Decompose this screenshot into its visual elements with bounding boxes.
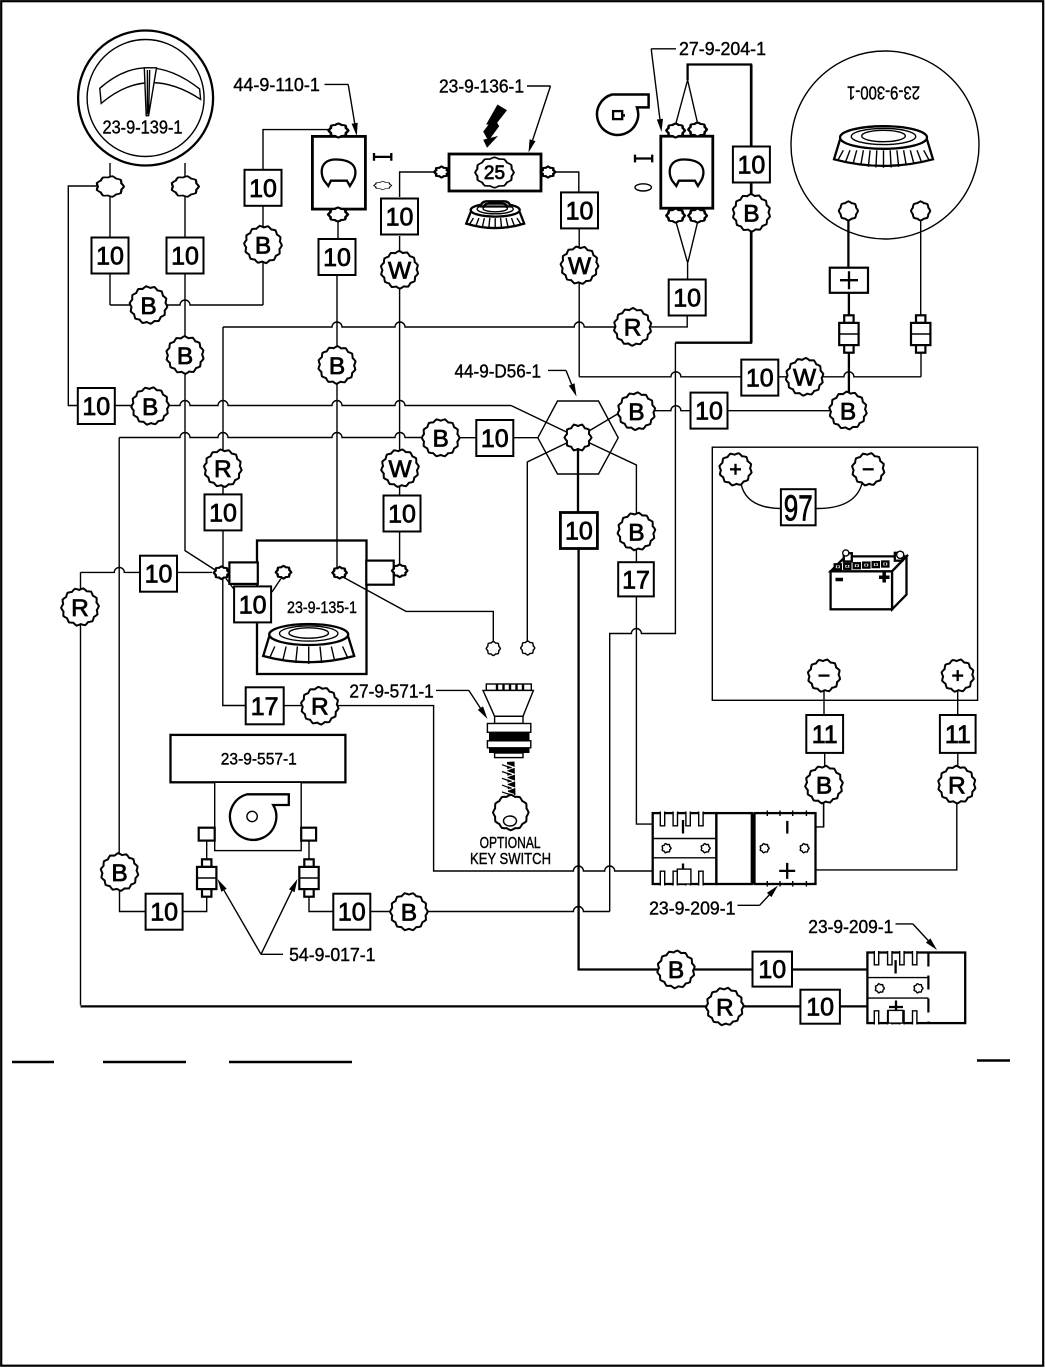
wire label 10 at 135 box: [234, 586, 271, 622]
splice R far left: [61, 588, 99, 625]
splice B bottom run: [657, 951, 694, 989]
wire y572.4 from R elbow to 10 box hop x119: [81, 567, 141, 572]
svg-text:W: W: [388, 258, 412, 285]
wire label 11 right: [940, 715, 976, 753]
wire left alternator lead heavy: [847, 219, 850, 393]
horn icon near relay 27-9-204-1: [597, 95, 649, 135]
component box 23-9-135-1: [257, 541, 367, 675]
svg-text:44-9-110-1: 44-9-110-1: [233, 74, 320, 95]
svg-text:23-9-135-1: 23-9-135-1: [287, 598, 357, 617]
right tab of 23-9-135-1: [366, 561, 393, 585]
svg-text:23-9-139-1: 23-9-139-1: [103, 117, 183, 138]
svg-text:W: W: [793, 365, 817, 392]
svg-text:10: 10: [746, 365, 774, 393]
svg-text:10: 10: [481, 425, 509, 453]
long bottom bus y1006.4 to R 10 connector: [81, 1005, 708, 1007]
wire gauge right terminal down: [184, 163, 186, 238]
svg-text:10: 10: [145, 561, 173, 589]
legend line segment 2: [103, 1061, 186, 1064]
blower housing box: [215, 782, 302, 850]
heavy wire x578 from 10 box down to B 10 connector block 2 run: [579, 548, 659, 970]
battery minus terminal circle top: [852, 453, 884, 485]
circuit 97 box: [781, 487, 816, 528]
wire right alternator lead down to bus: [920, 220, 922, 377]
wire right blower bullet to 10 to B: [309, 898, 392, 912]
splice R battery plus lead: [938, 766, 975, 804]
svg-text:97: 97: [784, 487, 813, 528]
relay 27-9-204-1 top left terminal: [666, 123, 684, 137]
alternator right terminal: [911, 201, 930, 220]
wire 10 box x158 to junction blob at 135 box left tab: [177, 571, 212, 573]
splice R at 17 box: [301, 687, 338, 725]
battery minus output circle: [808, 660, 840, 692]
junction block 44-9-D56-1 hexagon: [538, 401, 618, 474]
wire x400 from 10 box down to 23-9-135-1 right tab: [399, 236, 401, 565]
svg-text:17: 17: [622, 566, 650, 594]
splice W bus y377: [786, 358, 823, 396]
relay 44-9-110-1: [312, 136, 365, 209]
svg-text:11: 11: [945, 721, 971, 749]
gauge 23-9-139-1: [78, 31, 213, 166]
svg-text:W: W: [388, 456, 412, 483]
wire 17 box to R circle y705.5: [284, 705, 302, 707]
wire 10 box x687 down to R circle y327: [651, 316, 687, 327]
splice B x751: [733, 194, 770, 232]
svg-text:R: R: [71, 595, 89, 622]
svg-text:10: 10: [758, 956, 786, 984]
svg-text:10: 10: [338, 899, 366, 927]
bevel gear under fuse: [466, 203, 524, 228]
wire y410.7 from hexagon B to 10 box to B splice: [654, 406, 831, 411]
splice R x223: [204, 449, 242, 487]
optional key switch 27-9-571-1 lock cylinder: [483, 684, 533, 758]
svg-text:R: R: [948, 772, 966, 799]
wire label 10 under relay 27-9-204: [669, 280, 706, 316]
svg-text:B: B: [668, 957, 684, 984]
alternator pulley: [834, 126, 933, 168]
wire B blower splice right to key area elbow up long run: [427, 907, 610, 912]
wire x751 relay feed through 10 and B: [750, 65, 752, 343]
svg-text:B: B: [816, 772, 832, 799]
svg-text:23-9-300-1: 23-9-300-1: [847, 83, 920, 104]
wire relay 44-9-110 bottom to 10 box: [337, 221, 339, 239]
wire x223 from bus y327 down to R 10 17 chain: [223, 327, 246, 706]
wire label 10 left of hexagon: [476, 420, 513, 456]
alternator left terminal: [839, 201, 858, 220]
splice B y305: [130, 286, 168, 324]
relay 27-9-204-1 bottom right terminal: [688, 209, 706, 223]
svg-text:10: 10: [566, 197, 594, 225]
splice R bus y327: [614, 308, 651, 346]
svg-text:10: 10: [695, 398, 723, 426]
splice B x337: [318, 346, 355, 384]
svg-text:27-9-204-1: 27-9-204-1: [679, 38, 766, 59]
terminal blob on 23-9-135-1: [276, 566, 291, 579]
wire end blob left of relay 27-9-204-1: [635, 184, 651, 191]
bus y437.5 from x119 to B circle: [119, 433, 423, 438]
right tab terminal blob: [392, 564, 407, 577]
svg-text:B: B: [840, 398, 856, 425]
wire blower B splice to 10 to left bullet: [120, 890, 207, 912]
wire battery minus to 11 to B to connector block 1: [816, 692, 825, 827]
wire label 10 bottom R run: [800, 990, 840, 1024]
key switch left lead terminal: [486, 641, 500, 655]
svg-text:KEY SWITCH: KEY SWITCH: [470, 851, 551, 868]
svg-text:23-9-209-1: 23-9-209-1: [649, 898, 735, 919]
junction blob inside 23-9-135-1: [332, 567, 346, 579]
wire V legs from relay 27-9-204 bottom terminals to apex: [676, 222, 698, 262]
left tab of 23-9-135-1: [229, 562, 257, 584]
arc from plus circle to 97 box: [741, 484, 781, 509]
svg-text:44-9-D56-1: 44-9-D56-1: [455, 361, 542, 382]
connector block 23-9-209-1 lower: [867, 951, 965, 1025]
svg-text:23-9-209-1: 23-9-209-1: [808, 916, 893, 937]
svg-text:10: 10: [239, 591, 267, 619]
wire y969.5 B to 10 to connector block 2: [694, 968, 868, 970]
wire connector block 1 right to B above: [823, 803, 825, 827]
bullet connector 54-9-017-1 left: [197, 859, 216, 896]
hexagon spoke to right B circle: [578, 413, 620, 438]
label box 23-9-557-1: [171, 735, 346, 782]
svg-text:R: R: [624, 315, 642, 342]
wire bus y305 from x110 to x263 hop at 185: [110, 300, 263, 305]
svg-text:B: B: [329, 353, 345, 380]
svg-text:R: R: [311, 694, 329, 721]
splice B blower right: [390, 893, 428, 930]
connector block 23-9-209-1 upper: [653, 811, 816, 887]
svg-text:W: W: [568, 253, 592, 280]
wire label 10 under fuse left: [381, 199, 418, 235]
wire blower tabs to bullets: [207, 841, 309, 859]
blower fan icon: [230, 794, 289, 840]
splice W under fuse right: [561, 247, 599, 284]
bus y327 from x223 corner to R circle: [223, 322, 615, 327]
fuse 25A 23-9-136-1: [449, 154, 541, 191]
bullet connector left alternator lead: [839, 315, 858, 352]
wire junction blob diagonals into 10 box at 135 box: [226, 579, 281, 593]
wire x337 from 10 box down into 23-9-135-1 box: [336, 276, 338, 569]
relay 27-9-204-1: [661, 136, 713, 208]
leader arrows for 54-9-017-1: [261, 953, 283, 955]
blower left tab: [199, 828, 215, 841]
svg-text:25: 25: [484, 163, 505, 184]
battery plus output circle: [942, 660, 974, 692]
arc from minus circle to 97 box: [816, 484, 863, 509]
wire 10 box down to B splice bus y305: [109, 273, 111, 305]
wire x579 from 10 box down to bus y376.8: [578, 229, 580, 377]
bottom bus segments between R 10 and connector block 2: [743, 1005, 869, 1007]
wire label 10 under gauge left: [92, 238, 129, 274]
svg-text:23-9-557-1: 23-9-557-1: [221, 750, 297, 769]
wire label 10 above B x263: [245, 170, 282, 206]
leader for 23-9-136-1: [527, 85, 551, 87]
wire battery plus to 11 to R to connector block 1: [816, 692, 958, 870]
wire label 10 left of 135 box: [140, 556, 177, 592]
wire label 11 left: [806, 715, 843, 753]
gauge right terminal: [172, 176, 199, 197]
wire label 10 x223 column: [205, 494, 242, 530]
legend line segment 3: [229, 1061, 352, 1064]
wire label 10 right of hexagon: [691, 393, 728, 429]
svg-text:B: B: [628, 399, 644, 426]
leader for 23-9-209-1 lower: [896, 923, 913, 925]
key switch right lead terminal: [521, 641, 535, 655]
svg-text:10: 10: [82, 393, 110, 421]
wire label 10 below hexagon: [560, 513, 597, 549]
bullet connector right alternator lead: [911, 315, 930, 352]
splice R bottom bus: [706, 988, 744, 1025]
wire fuse left terminal to 10 box below: [400, 172, 434, 197]
legend line segment 4: [977, 1059, 1010, 1062]
relay 44-9-110-1 bottom terminal: [328, 207, 348, 221]
svg-text:10: 10: [171, 243, 199, 271]
wire label 10 blower right: [333, 894, 370, 930]
wire x80 from R circle down to long bottom bus: [80, 625, 82, 1006]
leader for 27-9-204-1: [651, 48, 676, 50]
svg-text:23-9-136-1: 23-9-136-1: [439, 76, 524, 97]
svg-text:B: B: [255, 232, 271, 259]
wire end blob right of relay 44-9-110-1: [374, 182, 392, 190]
splice B battery minus lead: [805, 766, 843, 804]
svg-text:B: B: [433, 426, 449, 453]
relay 44-9-110-1 top terminal: [329, 123, 349, 137]
wire label 10 on bus y377: [741, 360, 778, 396]
wire label 10 far left bus: [78, 388, 115, 424]
wire x263 up from bus y305 to relay 44-9-110 top: [263, 130, 330, 305]
svg-text:B: B: [142, 394, 158, 421]
wire label 10 blower left: [146, 894, 183, 930]
svg-text:10: 10: [737, 152, 765, 180]
relay 27-9-204-1 bottom left terminal: [666, 209, 684, 223]
legend line segment 1: [12, 1061, 54, 1064]
wire label 17 at x636: [618, 562, 654, 596]
splice B right of hexagon: [618, 392, 655, 430]
battery icon: [831, 550, 907, 609]
bus y405.5 left section to hexagon spoke: [115, 401, 512, 406]
wire from gauge left terminal to 10 box at far left: [68, 186, 97, 406]
svg-text:OPTIONAL: OPTIONAL: [480, 835, 541, 852]
svg-text:27-9-571-1: 27-9-571-1: [349, 680, 433, 701]
splice B right end y410: [829, 392, 866, 430]
svg-text:10: 10: [209, 499, 237, 527]
alternator 23-9-300-1: [791, 51, 979, 239]
bus y405.5 diagonal spoke into hexagon hub: [511, 406, 578, 438]
wire label 10 under fuse right: [561, 192, 598, 228]
svg-text:B: B: [111, 860, 127, 887]
svg-text:10: 10: [323, 244, 351, 272]
svg-text:10: 10: [565, 518, 593, 546]
wire x185 from 10 box down to junction blob diagonal: [185, 273, 218, 572]
key icon: [493, 762, 529, 831]
svg-text:10: 10: [673, 285, 701, 313]
splice B bus y437: [422, 419, 460, 456]
svg-text:17: 17: [251, 693, 279, 721]
svg-text:R: R: [214, 456, 232, 483]
wire label 10 bottom B run: [753, 952, 793, 987]
svg-text:10: 10: [806, 994, 834, 1022]
wire R to elbow x433 down to y871 run: [338, 706, 653, 871]
splice W x400 lower: [381, 449, 419, 487]
wire apex down to 10 box x687: [687, 262, 689, 279]
fuse left terminal: [434, 166, 448, 177]
wire V legs from apex to relay 27-9-204 top terminals: [676, 80, 697, 123]
connector symbol right of relay 44-9-110-1: [374, 153, 391, 161]
wire label 10 under relay 44-9-110: [319, 239, 356, 275]
blower right tab: [301, 828, 316, 841]
heavy wire y342 x751 y64 feeding relay 27-9-204: [675, 65, 751, 343]
splice B x636: [618, 513, 656, 551]
leader for 44-9-110-1: [325, 83, 349, 85]
svg-text:10: 10: [388, 501, 416, 529]
junction block hub: [565, 425, 592, 451]
splice B x263: [244, 226, 282, 263]
svg-text:B: B: [743, 201, 759, 228]
bullet connector 54-9-017-1 right: [299, 859, 318, 896]
svg-text:11: 11: [812, 721, 838, 749]
wire R elbow down x80: [80, 572, 82, 590]
leader for 27-9-571-1: [436, 689, 469, 691]
leader for 23-9-209-1 upper: [738, 904, 760, 906]
svg-text:10: 10: [386, 204, 414, 232]
svg-text:10: 10: [249, 175, 277, 203]
svg-text:54-9-017-1: 54-9-017-1: [289, 944, 375, 965]
wire x119 from bus down to B blower splice: [118, 438, 120, 855]
wire x636 B to 17 box: [635, 550, 637, 563]
gauge left terminal: [97, 176, 124, 197]
lightning bolt symbol: [483, 105, 507, 148]
svg-text:10: 10: [150, 899, 178, 927]
battery compartment box: [712, 447, 977, 700]
splice B x185: [166, 336, 203, 374]
svg-text:10: 10: [96, 243, 124, 271]
bevel gear inside 23-9-135-1: [263, 624, 354, 664]
splice B blower left: [101, 853, 138, 891]
connector symbol left of relay 27-9-204-1: [635, 155, 652, 163]
junction blob left of 23-9-135-1: [214, 566, 229, 579]
long wire x609 up to y633 over to x675 up to y342: [610, 343, 676, 912]
bus y376.8 from x579 to alternator wires: [579, 372, 921, 377]
svg-text:R: R: [716, 994, 734, 1021]
fuse right terminal: [541, 166, 555, 177]
wire gauge left terminal down to 10 box: [109, 163, 111, 238]
wire fuse right terminal down to 10 box: [554, 172, 579, 193]
wire label 10 on relay feed x751: [733, 147, 770, 183]
wire label 10 under gauge right: [167, 238, 204, 274]
wire x636 from 17 box down to connector block 1: [636, 597, 653, 825]
relay 27-9-204-1 top right terminal: [688, 122, 706, 136]
polarity box plus on left alternator lead: [830, 268, 868, 293]
svg-text:B: B: [140, 293, 156, 320]
battery plus terminal circle top: [719, 453, 751, 485]
splice W under fuse left: [381, 251, 418, 289]
hexagon spoke down to 10 box x578: [577, 438, 579, 514]
svg-text:B: B: [628, 519, 644, 546]
svg-text:B: B: [177, 343, 193, 370]
splice B bus y405: [131, 387, 169, 424]
leader for 44-9-D56-1: [548, 369, 566, 371]
svg-text:B: B: [401, 900, 417, 927]
wire label 17 at x264: [246, 687, 284, 724]
hexagon spoke down-left to key switch right lead: [527, 438, 578, 642]
wire diagonal from 135 box blob to optional key switch left lead: [342, 577, 493, 643]
wire label 10 x402 column: [384, 496, 421, 532]
hexagon spoke down-right to B 17 chain x636: [578, 438, 636, 515]
bus y437.5 B to 10 to hexagon: [459, 437, 539, 439]
